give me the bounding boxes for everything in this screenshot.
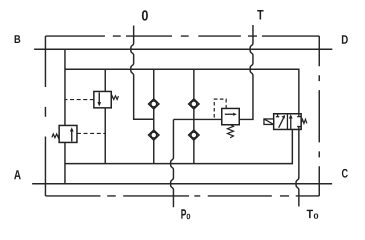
- relief valve V1 (upper, spring right, pilot left): [65, 91, 119, 107]
- valve V4 left cell blocked port and diagonal arrow path: [276, 114, 279, 117]
- valve V4 right cell up-arrow and blocked ports: [290, 117, 292, 129]
- valve V1 internal down-arrow: [98, 92, 100, 103]
- port label B: [15, 35, 21, 43]
- port label T0: [307, 210, 319, 219]
- valve V1 spring: [111, 96, 118, 100]
- port label P0: [181, 209, 190, 219]
- enclosure border left (dash-dot): [44, 36, 46, 196]
- wire upper bus, corner down to valve V4 top port: [65, 69, 299, 114]
- pressure reducing valve V3 (arrow right, spring below, pilot loop): [214, 99, 239, 138]
- check valve CV3 (column 1 lower): [149, 130, 159, 140]
- enclosure border top (dash-dot): [45, 35, 319, 37]
- port label C: [342, 169, 348, 178]
- check valve CV4 (column 2 lower): [189, 130, 199, 140]
- enclosure border bottom (dash-dot): [45, 195, 319, 197]
- port label D: [342, 35, 348, 44]
- valve V4 lever actuator: [264, 119, 274, 125]
- valve V4 return spring: [301, 119, 307, 123]
- wire port T line with crossover jogs, corner left to valve V3 outlet: [239, 25, 253, 119]
- valve V3 spring: [227, 125, 233, 138]
- wire port P0 riser with crossover jogs: [171, 119, 174, 207]
- valve V2 spring: [52, 134, 59, 138]
- valve V2 internal up-arrow: [71, 130, 73, 141]
- port label O: [142, 10, 148, 20]
- wire check valve column 2: [193, 69, 195, 163]
- wire through relief valve V1 down to lower bus: [104, 69, 106, 163]
- wire reducing valve V3 inlet line from P0 riser: [173, 118, 221, 120]
- port label A: [14, 170, 21, 179]
- wire check valve column 1: [153, 69, 155, 163]
- relief valve V2 (lower, spring left, pilot right): [52, 125, 105, 142]
- valve V3 pilot loop (dashed): [214, 99, 226, 119]
- wire port line A to C: [32, 183, 332, 185]
- port label T: [257, 10, 263, 20]
- wire port O line with crossover jogs, corner right into column 1: [131, 25, 154, 119]
- wire B branch through relief valve V2 down to A-C line: [64, 49, 66, 184]
- enclosure border right (dash-dot): [318, 36, 320, 196]
- wire lower bus, corner up to valve V4 bottom-left port: [65, 129, 292, 163]
- valve V3 internal right-arrow: [225, 113, 234, 115]
- check valve CV2 (column 2 upper): [189, 99, 199, 109]
- directional valve V4 (2-position, lever left, spring right): [264, 114, 307, 130]
- wire port T0 riser with crossover jog at A-C line: [296, 129, 299, 206]
- wire port line B to D: [34, 48, 332, 50]
- check valve CV1 (column 1 upper): [149, 99, 159, 109]
- valve V2 pilot line (dashed): [77, 132, 105, 134]
- valve V1 pilot line (dashed): [65, 99, 94, 101]
